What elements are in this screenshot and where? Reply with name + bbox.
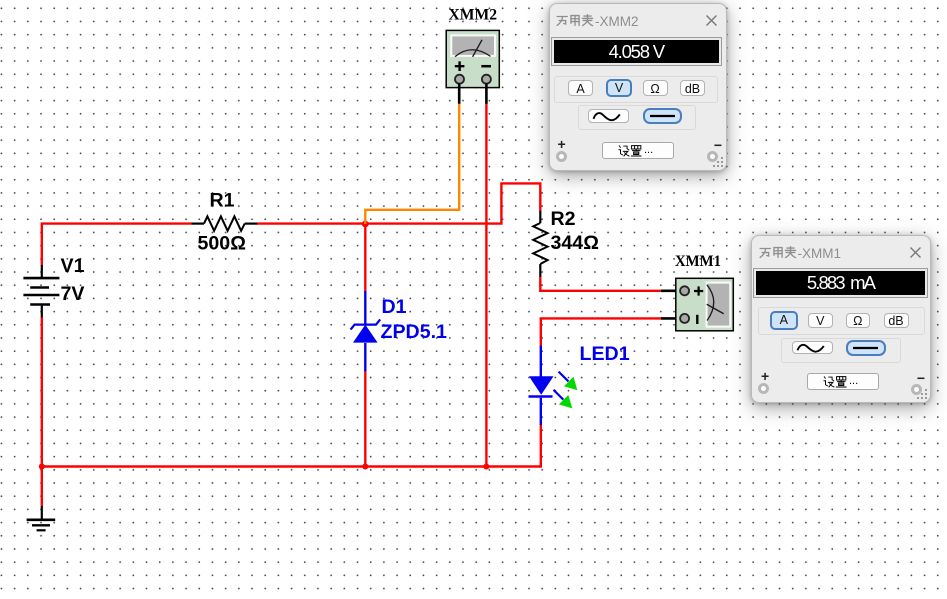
ground xyxy=(27,506,56,530)
resistor R1 xyxy=(191,216,257,230)
junction rail-zener xyxy=(362,464,368,470)
multimeter icon XMM1 xyxy=(661,278,733,331)
svg-text:344Ω: 344Ω xyxy=(551,232,599,254)
svg-text:LED1: LED1 xyxy=(580,343,630,365)
LED1 xyxy=(529,346,578,425)
svg-text:D1: D1 xyxy=(382,296,407,318)
multimeter icon XMM2 xyxy=(446,30,499,103)
wire zener branch red top xyxy=(364,224,366,292)
svg-text:XMM1: XMM1 xyxy=(675,253,721,270)
wire orange XMM2 plus to node A xyxy=(365,103,459,225)
svg-text:V1: V1 xyxy=(61,255,85,277)
wire XMM2 minus down to rail xyxy=(485,103,487,467)
wire XMM1 minus to LED top xyxy=(541,318,661,346)
svg-text:500Ω: 500Ω xyxy=(198,233,246,255)
svg-text:R1: R1 xyxy=(210,190,235,212)
svg-text:ZPD5.1: ZPD5.1 xyxy=(381,321,448,343)
zener diode D1 xyxy=(351,291,381,371)
junction node A top of zener xyxy=(362,221,369,228)
wire R1 right to R2 top xyxy=(257,183,540,223)
instrument panel XMM2 dialog xyxy=(549,3,728,171)
resistor R2 xyxy=(533,211,547,278)
svg-text:7V: 7V xyxy=(61,283,85,305)
junction rail-XMM2 xyxy=(483,464,489,470)
svg-text:...: ... xyxy=(644,144,653,156)
hidden CJK glyph defs xyxy=(0,0,1,1)
svg-text:XMM2: XMM2 xyxy=(449,6,498,23)
instrument panel XMM1 dialog xyxy=(751,235,931,403)
svg-text:R2: R2 xyxy=(551,208,576,230)
wire LED bottom to ground rail xyxy=(42,425,541,467)
battery V1 xyxy=(23,265,59,317)
wire R2 bottom to XMM1 plus xyxy=(540,277,661,291)
junction rail-ground xyxy=(39,464,45,470)
wire zener branch red bottom xyxy=(364,371,366,467)
wire battery top to R1 left xyxy=(42,224,192,266)
svg-text:...: ... xyxy=(849,375,858,387)
wire battery bottom to rail and ground xyxy=(41,317,43,507)
